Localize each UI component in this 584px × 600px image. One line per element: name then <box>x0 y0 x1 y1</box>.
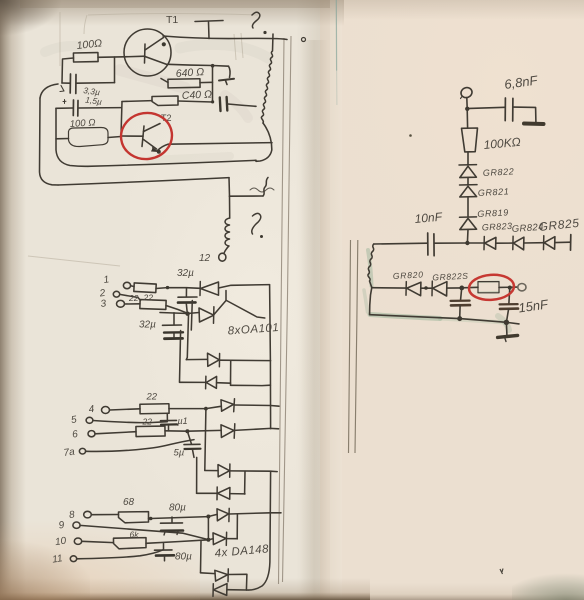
svg-text:GR821: GR821 <box>478 186 510 198</box>
svg-text:10nF: 10nF <box>414 210 443 226</box>
svg-text:22: 22 <box>146 392 158 403</box>
svg-text:10: 10 <box>54 536 67 549</box>
svg-text:32µ: 32µ <box>139 320 156 331</box>
svg-text:GR819: GR819 <box>477 207 509 219</box>
svg-text:GR823: GR823 <box>482 221 513 233</box>
svg-text:80µ: 80µ <box>169 503 186 514</box>
svg-text:80µ: 80µ <box>175 552 192 563</box>
svg-text:22: 22 <box>128 293 139 303</box>
svg-text:68: 68 <box>123 497 135 508</box>
svg-text:6k: 6k <box>130 530 140 540</box>
svg-text:C40 Ω: C40 Ω <box>182 88 213 102</box>
svg-text:µ1: µ1 <box>178 416 188 426</box>
svg-text:GR822: GR822 <box>483 166 515 178</box>
svg-text:GR822S: GR822S <box>432 271 469 283</box>
svg-text:11: 11 <box>51 553 63 565</box>
svg-text:640 Ω: 640 Ω <box>175 66 204 80</box>
svg-text:5µ: 5µ <box>174 448 185 459</box>
svg-text:100 Ω: 100 Ω <box>69 117 95 130</box>
svg-text:GR820: GR820 <box>393 269 424 281</box>
svg-text:22: 22 <box>142 417 153 427</box>
svg-text:T1: T1 <box>166 14 178 26</box>
svg-text:7a: 7a <box>63 446 76 459</box>
svg-text:32µ: 32µ <box>177 268 194 279</box>
svg-text:12: 12 <box>199 253 211 264</box>
svg-text:22: 22 <box>143 293 154 303</box>
